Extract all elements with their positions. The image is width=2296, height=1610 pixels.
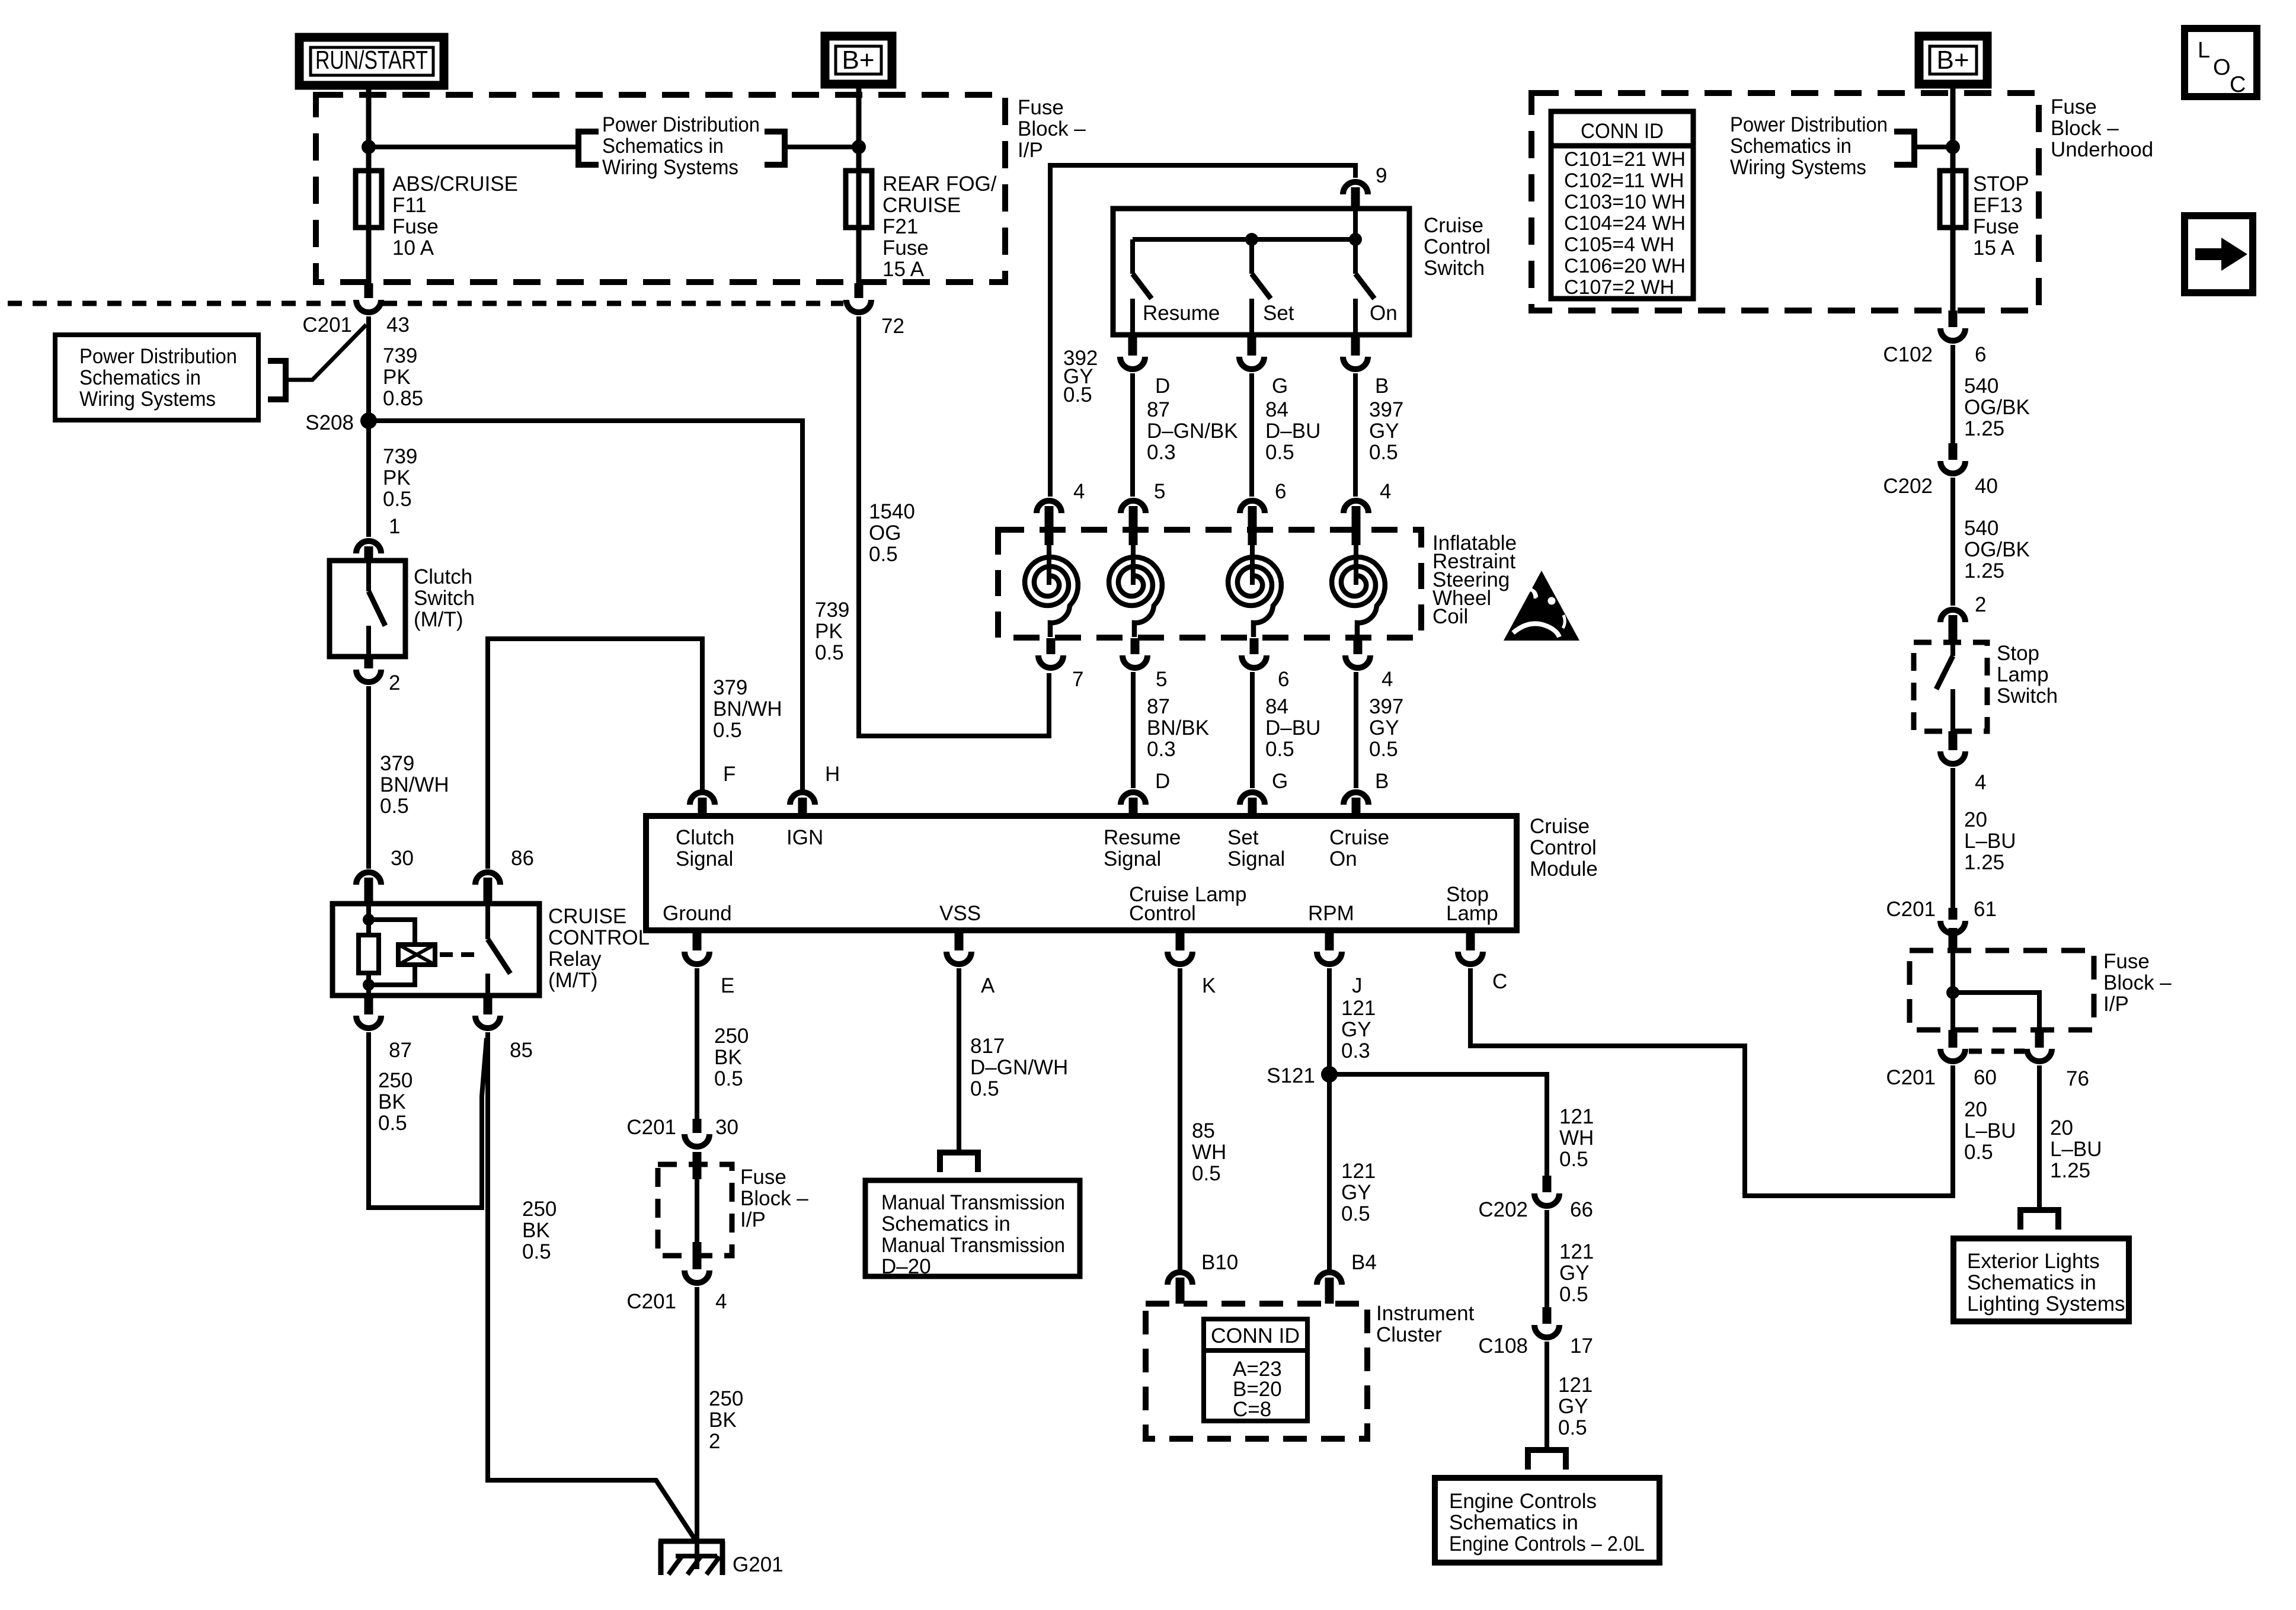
svg-text:VSS: VSS [939,902,981,925]
svg-text:Resume: Resume [1104,826,1181,849]
svg-text:K: K [1202,974,1216,997]
svg-text:Manual Transmission: Manual Transmission [881,1234,1065,1257]
svg-text:Schematics in: Schematics in [1730,135,1851,158]
svg-text:86: 86 [511,847,534,870]
clutch switch box [330,561,405,657]
splice S121 [1321,1066,1338,1083]
svg-text:0.5: 0.5 [869,543,898,566]
svg-text:CRUISE: CRUISE [548,905,626,928]
svg-text:ABS/CRUISE: ABS/CRUISE [392,172,518,196]
connector module pin E [693,930,702,950]
svg-text:30: 30 [715,1116,738,1139]
relay switch contacts [485,904,490,939]
svg-text:5: 5 [1156,668,1167,691]
svg-text:C101=21 WH: C101=21 WH [1564,148,1686,171]
terminator VSS staple [940,1153,978,1172]
wire fuse F21 to coil pin 7 [856,229,862,283]
connector relay pin 30 [356,872,381,885]
svg-text:0.3: 0.3 [1341,1039,1370,1062]
svg-text:61: 61 [1974,898,1997,921]
connector module pin H [790,792,815,805]
wire coil 5 to module Resume [1131,672,1136,788]
svg-text:(M/T): (M/T) [414,608,463,631]
svg-text:Cruise: Cruise [1329,826,1389,849]
connector C201 pin 4 [685,1270,709,1283]
svg-text:6: 6 [1275,480,1286,503]
svg-text:C106=20 WH: C106=20 WH [1564,255,1686,277]
svg-text:WH: WH [1192,1141,1226,1164]
wire module K to cluster B10 [1178,968,1182,1273]
svg-text:Fuse: Fuse [1018,96,1064,119]
connector relay pin 86 [475,872,500,885]
svg-text:Control: Control [1530,836,1597,859]
stop lamp switch contacts [1950,642,1955,656]
fuse block I/P dashed box [316,95,1005,282]
wire S208 to clutch switch [366,421,371,537]
wire module A to manual trans [957,968,961,1153]
svg-text:REAR FOG/: REAR FOG/ [882,172,997,196]
svg-text:Power Distribution: Power Distribution [1730,113,1888,136]
svg-text:Schematics in: Schematics in [881,1212,1011,1235]
svg-text:Ground: Ground [663,902,732,925]
wire S121 to cluster B4 [1327,1074,1332,1273]
svg-text:OG: OG [869,521,901,545]
svg-text:C102=11 WH: C102=11 WH [1564,169,1684,192]
inflatable restraint coil dashed box [998,530,1421,638]
svg-text:1: 1 [389,515,400,538]
connector C202 pin 66 [1534,1193,1559,1206]
svg-text:CONN ID: CONN ID [1581,120,1664,143]
wire relay 85 to ground [488,1032,696,1541]
svg-text:(M/T): (M/T) [548,969,598,992]
connector stop lamp pin 2 [1940,610,1965,622]
svg-text:D–20: D–20 [881,1255,931,1278]
svg-text:40: 40 [1975,475,1998,498]
connector C201 pin 30 [685,1134,709,1147]
svg-text:0.5: 0.5 [1341,1202,1370,1225]
wire coil 4 to module Cruise On [1354,672,1358,788]
connector relay pin 85 [484,996,493,1014]
connector coil bottom 1 [1047,638,1056,654]
svg-text:0.5: 0.5 [1558,1416,1587,1439]
svg-text:C103=10 WH: C103=10 WH [1564,191,1686,213]
fuse F11 [366,171,372,228]
connector C202 pin 40 [1940,461,1965,473]
svg-text:BK: BK [714,1046,742,1069]
svg-text:G201: G201 [733,1553,784,1576]
cruise control switch box [1113,209,1409,335]
svg-text:0.5: 0.5 [1369,441,1398,464]
svg-text:A: A [981,974,995,997]
svg-text:C201: C201 [1886,898,1936,921]
svg-text:2: 2 [709,1430,720,1453]
connector module pin F [690,792,715,805]
svg-text:0.5: 0.5 [522,1240,551,1263]
svg-text:Power Distribution: Power Distribution [79,345,237,368]
wire C202-66 to C108-17 [1544,1210,1549,1307]
svg-text:66: 66 [1570,1198,1593,1221]
svg-text:15 A: 15 A [882,258,925,281]
svg-text:L–BU: L–BU [1964,830,2016,853]
svg-text:4: 4 [1975,771,1986,794]
svg-text:60: 60 [1974,1066,1997,1089]
svg-text:OG/BK: OG/BK [1964,538,2030,561]
svg-text:C201: C201 [302,313,352,337]
svg-text:GY: GY [1369,420,1399,443]
callout bracket left of top text [578,132,599,165]
svg-text:250: 250 [709,1387,743,1410]
svg-text:397: 397 [1369,695,1403,718]
svg-text:Control: Control [1424,235,1491,258]
connector clutch switch pin 1 [356,541,381,553]
callout box Exterior Lights [1953,1238,2129,1321]
wire bracket to underhood B+ wire [1914,145,1953,149]
svg-text:0.3: 0.3 [1147,738,1176,761]
svg-text:6: 6 [1278,668,1289,691]
wire coil 6 to module Set [1250,672,1255,788]
svg-text:EF13: EF13 [1973,194,2023,217]
LOC legend box [2185,28,2257,97]
svg-text:Block –: Block – [2103,971,2172,994]
svg-text:Fuse: Fuse [2051,95,2097,119]
wire relay 86 to module F [488,639,702,869]
fuse block I/P right dashed box [1910,950,2094,1030]
svg-text:6: 6 [1975,343,1986,366]
svg-text:121: 121 [1341,997,1376,1020]
svg-text:20: 20 [1964,808,1987,831]
wire 76 to exterior lights [2037,1065,2042,1210]
svg-text:4: 4 [1382,668,1393,691]
svg-text:D–BU: D–BU [1265,716,1320,740]
svg-text:B: B [1375,770,1389,793]
svg-text:GY: GY [1559,1262,1590,1285]
svg-text:Resume: Resume [1143,302,1220,325]
svg-text:C201: C201 [1886,1066,1936,1089]
relay coil branch [369,920,415,945]
svg-text:Wiring Systems: Wiring Systems [602,156,738,179]
svg-text:Fuse: Fuse [740,1166,786,1189]
svg-text:Switch: Switch [1997,684,2058,708]
svg-text:C105=4 WH: C105=4 WH [1564,233,1674,256]
wire C202-40 to stop lamp switch [1950,478,1955,606]
svg-text:Control: Control [1129,902,1196,925]
connector switch pin 9 [1343,182,1368,194]
terminator exterior lights staple [2020,1210,2058,1230]
ground G201 symbol [658,1539,725,1544]
svg-text:C104=24 WH: C104=24 WH [1564,212,1686,235]
connector clutch switch pin 2 [364,657,373,668]
svg-text:379: 379 [713,676,747,699]
svg-text:BK: BK [709,1409,737,1432]
power feed box RUN/START [299,37,444,85]
fuse block underhood dashed box [1531,93,2039,311]
svg-text:20: 20 [1964,1098,1987,1121]
svg-text:4: 4 [1073,480,1085,503]
cluster CONN ID table [1204,1319,1307,1421]
connector stop lamp pin 4 [1949,731,1958,750]
callout box Engine Controls [1435,1478,1659,1563]
connector switch pin G [1248,335,1256,356]
svg-text:C108: C108 [1478,1334,1528,1358]
svg-text:0.5: 0.5 [1964,1141,1993,1164]
svg-text:Engine Controls – 2.0L: Engine Controls – 2.0L [1449,1532,1645,1555]
svg-text:87: 87 [1147,695,1170,718]
fuse EF13 [1950,171,1956,228]
switch Resume contacts [1130,239,1135,274]
fuse F21 [856,171,862,228]
underhood CONN ID table [1551,111,1693,299]
svg-text:2: 2 [389,671,400,694]
relay coil element [398,945,435,965]
svg-text:C: C [2230,72,2246,97]
wire S208 branch to IGN pin H [369,421,802,793]
relay actuation dashed link [440,952,478,957]
svg-text:Cruise: Cruise [1530,815,1590,838]
svg-text:84: 84 [1265,695,1288,718]
wire C102 to C202-40 [1950,345,1955,443]
svg-text:84: 84 [1265,398,1288,421]
wire B+ to fuse F21 [856,85,862,174]
svg-text:Block –: Block – [1018,117,1086,140]
svg-text:0.5: 0.5 [380,795,409,818]
wire EF13 to C102 [1950,229,1956,311]
svg-text:0.5: 0.5 [1063,383,1092,406]
connector module pin D [1121,792,1146,805]
svg-text:RUN/START: RUN/START [315,46,428,75]
svg-text:397: 397 [1369,398,1403,421]
svg-text:250: 250 [714,1025,749,1048]
svg-text:C202: C202 [1478,1198,1528,1221]
svg-text:Stop: Stop [1997,642,2039,665]
connector pin 76 [2035,1030,2044,1048]
svg-text:B: B [1375,375,1389,398]
svg-text:IGN: IGN [786,826,823,849]
svg-text:4: 4 [715,1290,727,1313]
svg-text:Schematics in: Schematics in [1967,1271,2096,1294]
svg-text:Set: Set [1227,826,1259,849]
wire relay 87 loop to 85 [369,1032,487,1208]
switch On contacts [1353,239,1358,274]
svg-text:BN/BK: BN/BK [1147,716,1209,740]
wire module E to C201-30 [695,968,699,1119]
instrument cluster dashed box [1146,1304,1367,1439]
svg-text:540: 540 [1964,375,1998,398]
svg-text:Manual Transmission: Manual Transmission [881,1191,1065,1214]
connector coil bottom 4 [1354,638,1363,654]
svg-text:CONN ID: CONN ID [1211,1324,1300,1347]
svg-text:Relay: Relay [548,948,602,971]
svg-text:0.85: 0.85 [383,387,423,410]
svg-text:L–BU: L–BU [2050,1138,2102,1161]
svg-text:D–GN/WH: D–GN/WH [970,1056,1068,1079]
svg-text:121: 121 [1558,1374,1593,1397]
clutch switch contacts [366,561,371,591]
relay node top [363,914,375,926]
svg-text:B+: B+ [842,46,874,75]
svg-text:O: O [2213,55,2231,80]
connector coil top c4 [1344,501,1368,513]
svg-text:Signal: Signal [1227,847,1285,870]
wire F11 to connector C201-43 [366,229,372,283]
svg-text:0.5: 0.5 [713,719,742,742]
coil spiral 4 [1354,545,1358,585]
splice S208 [360,412,377,429]
svg-text:F21: F21 [882,215,918,238]
svg-text:GY: GY [1341,1181,1371,1204]
svg-text:C102: C102 [1883,343,1933,366]
svg-text:Power Distribution: Power Distribution [602,113,760,136]
svg-text:Set: Set [1263,302,1294,325]
svg-text:H: H [825,763,840,786]
svg-text:121: 121 [1559,1105,1594,1128]
svg-text:85: 85 [1192,1119,1215,1142]
connector coil bottom 2 [1131,638,1140,654]
callout bracket right of top text [765,132,785,165]
wire inside right fuse block [1950,953,1955,1030]
svg-text:Fuse: Fuse [2103,950,2150,973]
connector C201 pin 60 [1949,1030,1958,1048]
svg-text:D–BU: D–BU [1265,420,1320,443]
svg-text:250: 250 [522,1198,557,1221]
svg-text:STOP: STOP [1973,172,2029,196]
svg-text:43: 43 [386,313,410,337]
node junction right fuse block [1946,986,1959,999]
cruise control module box [646,816,1517,930]
svg-text:0.5: 0.5 [970,1077,999,1100]
wire clutch switch to relay 30 [366,686,371,869]
svg-text:379: 379 [380,752,414,775]
svg-text:Lighting Systems: Lighting Systems [1967,1292,2125,1315]
svg-text:87: 87 [389,1039,412,1062]
svg-text:L: L [2198,38,2210,63]
svg-text:Schematics in: Schematics in [79,366,201,389]
svg-text:10 A: 10 A [392,236,434,260]
svg-text:PK: PK [383,366,411,389]
svg-text:Clutch: Clutch [676,826,734,849]
svg-text:15 A: 15 A [1973,236,2015,260]
svg-text:C201: C201 [626,1116,676,1139]
svg-text:0.5: 0.5 [1265,441,1294,464]
connector relay pin 87 [364,996,373,1014]
connector module pin G [1240,792,1265,805]
relay node bottom [363,979,375,991]
svg-text:Schematics in: Schematics in [1449,1511,1578,1534]
callout bracket right of left box [268,361,286,399]
wire B+ underhood to fuse EF13 [1950,85,1956,174]
svg-text:F11: F11 [392,194,427,217]
callout box Manual Transmission [865,1180,1080,1276]
svg-text:Wiring Systems: Wiring Systems [79,388,216,411]
svg-text:I/P: I/P [2103,993,2129,1016]
svg-text:Signal: Signal [676,847,733,870]
svg-text:D: D [1155,375,1170,398]
svg-text:121: 121 [1559,1240,1594,1263]
svg-text:0.5: 0.5 [1192,1162,1221,1185]
switch Set contacts [1249,239,1254,274]
svg-text:Underhood: Underhood [2051,138,2153,161]
svg-text:Clutch: Clutch [414,565,472,588]
svg-text:Lamp: Lamp [1446,902,1498,925]
terminator engine staple [1528,1450,1566,1470]
connector C201 pin 43 [356,300,381,312]
svg-text:Engine Controls: Engine Controls [1449,1490,1597,1513]
svg-text:0.5: 0.5 [1559,1148,1588,1171]
coil spiral 1 [1047,545,1051,585]
svg-text:E: E [721,974,734,997]
svg-text:C107=2 WH: C107=2 WH [1564,276,1674,299]
connector cluster pin B4 [1317,1272,1342,1285]
svg-text:30: 30 [391,847,414,870]
svg-text:4: 4 [1380,480,1391,503]
svg-text:BK: BK [522,1219,550,1242]
svg-text:PK: PK [815,620,843,643]
svg-text:Block –: Block – [740,1187,808,1210]
wire C201-60 to module C [1470,968,1953,1196]
node junction on RUN/START wire [362,140,376,154]
callout box Power Distribution (left) [55,335,258,420]
wire RUN/START to fuse F11 [366,85,372,174]
svg-text:Schematics in: Schematics in [602,135,724,158]
svg-text:WH: WH [1559,1126,1594,1150]
svg-text:0.5: 0.5 [378,1112,407,1135]
svg-text:Block –: Block – [2051,117,2119,140]
svg-text:20: 20 [2050,1116,2073,1140]
wire through ground fuse block [693,1152,702,1179]
svg-text:B10: B10 [1201,1251,1238,1274]
svg-text:Exterior Lights: Exterior Lights [1967,1250,2100,1273]
svg-text:2: 2 [1975,593,1986,616]
svg-text:7: 7 [1072,668,1083,691]
svg-text:Lamp: Lamp [1997,663,2049,686]
svg-text:On: On [1370,302,1398,325]
svg-text:PK: PK [383,466,411,489]
svg-text:1.25: 1.25 [1964,559,2004,582]
svg-text:739: 739 [815,598,849,622]
svg-text:GY: GY [1369,716,1399,740]
svg-text:D–GN/BK: D–GN/BK [1147,420,1238,443]
svg-text:S121: S121 [1267,1064,1315,1087]
node set branch [1245,233,1258,246]
relay resistor [366,904,371,935]
svg-text:0.5: 0.5 [1369,738,1398,761]
svg-text:Fuse: Fuse [1973,215,2019,238]
connector coil top c2 [1121,501,1146,513]
svg-text:5: 5 [1154,480,1165,503]
svg-text:I/P: I/P [1018,139,1043,162]
arrow legend box [2185,216,2253,293]
connector module pin A [955,930,964,950]
connector row dashed link [1969,1049,2025,1054]
svg-text:0.5: 0.5 [1559,1283,1588,1306]
svg-text:D: D [1155,770,1170,793]
svg-text:BK: BK [378,1090,406,1113]
stop lamp switch dashed box [1914,642,1987,731]
svg-text:BN/WH: BN/WH [380,773,449,796]
coil spiral 3 [1250,545,1255,585]
svg-text:Wiring Systems: Wiring Systems [1730,156,1866,179]
callout line to connector C201-43 [286,325,366,380]
connector module pin J [1325,930,1334,950]
svg-text:1540: 1540 [869,500,915,523]
relay CRUISE CONTROL box [332,904,539,996]
svg-text:J: J [1352,974,1363,997]
power feed box B+ (I/P) [825,36,892,84]
svg-text:C202: C202 [1883,475,1933,498]
ground fuse block dashed box [658,1164,732,1256]
svg-text:F: F [723,763,736,786]
wire module J to S121 [1327,968,1332,1074]
coil spiral 2 [1131,545,1136,585]
